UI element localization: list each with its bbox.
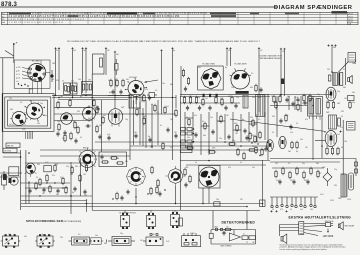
svg-text:1k2: 1k2 xyxy=(103,115,106,117)
svg-text:DETEKTORENHED: DETEKTORENHED xyxy=(222,220,256,224)
resistor R65 xyxy=(349,101,351,109)
connector J2 xyxy=(147,211,156,230)
svg-text:68k: 68k xyxy=(343,87,346,89)
svg-text:5k6: 5k6 xyxy=(126,79,129,81)
wire left rail xyxy=(2,58,4,153)
coil small xyxy=(243,95,248,108)
capacitor C13b xyxy=(148,95,151,100)
svg-text:g 45: g 45 xyxy=(16,71,20,73)
svg-text:2n2: 2n2 xyxy=(71,81,74,83)
svg-text:g 6.3: g 6.3 xyxy=(16,78,20,80)
terminal A13 xyxy=(283,48,285,50)
junction dot 21 xyxy=(28,152,30,154)
wire tube drop xyxy=(28,181,30,204)
svg-text:5k6: 5k6 xyxy=(116,54,119,56)
wire h 153 xyxy=(3,152,21,154)
tube V9 xyxy=(230,69,252,89)
wire v 345.6 xyxy=(345,58,347,85)
tube V3 xyxy=(25,163,37,177)
svg-text:47k: 47k xyxy=(52,175,55,177)
wire bus 203.5 xyxy=(21,203,262,205)
wire slant to transformer xyxy=(339,62,349,72)
svg-text:100: 100 xyxy=(170,119,173,121)
coil unit S3 xyxy=(69,237,93,245)
resistor R38 xyxy=(187,77,189,85)
resistor R43 xyxy=(215,96,217,104)
capacitor C14 xyxy=(98,134,101,139)
oscillator unit enclosure xyxy=(14,60,50,88)
svg-text:2M2: 2M2 xyxy=(326,112,329,114)
capacitor C29 xyxy=(194,132,197,137)
capacitor C8 xyxy=(42,187,45,192)
wire feed 8 xyxy=(172,49,174,160)
svg-text:50: 50 xyxy=(52,79,54,81)
IF amp box xyxy=(198,66,224,90)
IF transformer T1 xyxy=(256,95,266,117)
pin contact dots xyxy=(18,83,29,86)
svg-text:5k6: 5k6 xyxy=(198,67,201,69)
component row block 2 xyxy=(181,140,195,153)
svg-text:HØ 3939: HØ 3939 xyxy=(323,234,334,238)
svg-text:8p: 8p xyxy=(173,50,175,52)
svg-text:8p: 8p xyxy=(72,192,74,194)
filter choke xyxy=(329,115,341,129)
wire v257 xyxy=(256,114,258,142)
svg-text:LP: LP xyxy=(246,242,248,244)
junction dot 17 xyxy=(267,141,269,143)
tube V2b xyxy=(61,113,73,125)
junction dots audio xyxy=(28,182,71,196)
wire h 142 xyxy=(95,141,270,143)
junction dot 10 xyxy=(172,97,174,99)
resistor R52 xyxy=(208,151,216,153)
resistor R17 xyxy=(85,164,87,172)
svg-text:4M7: 4M7 xyxy=(57,102,60,104)
wire V1 leads xyxy=(22,60,50,94)
svg-text:0.02: 0.02 xyxy=(45,162,48,164)
junction dot 2 xyxy=(58,97,60,99)
junction dot 13 xyxy=(208,149,210,151)
IF can stubs xyxy=(310,116,321,120)
svg-text:4M7: 4M7 xyxy=(212,148,215,150)
svg-text:2M2: 2M2 xyxy=(185,167,188,169)
svg-text:2M2: 2M2 xyxy=(285,115,288,117)
resistor R37 xyxy=(182,69,184,77)
wire feed 7 xyxy=(114,53,116,109)
resistor R25 xyxy=(136,108,138,116)
svg-text:0.5: 0.5 xyxy=(78,234,80,236)
wire tuner top drop xyxy=(28,88,30,94)
junction dot 32 xyxy=(331,71,333,73)
resistor R48 xyxy=(220,115,222,123)
resistor R17d xyxy=(65,186,67,194)
svg-text:0.5: 0.5 xyxy=(260,50,262,52)
resistor R80 xyxy=(297,103,299,111)
svg-text:220: 220 xyxy=(232,73,235,75)
junction dot 14 xyxy=(224,141,226,143)
svg-text:0.8 45 215 1.2 6.3: 0.8 45 215 1.2 6.3 88 210 0.9 12.6 235 1… xyxy=(9,19,85,21)
svg-text:220: 220 xyxy=(145,89,148,91)
small box left of detector xyxy=(179,218,183,226)
voltage table frame xyxy=(2,12,359,24)
wire v176b xyxy=(175,95,177,108)
svg-text:2M2: 2M2 xyxy=(143,116,146,118)
left dark part 2 xyxy=(9,178,12,183)
wire tuner out 2 xyxy=(54,113,176,115)
wire h 95 xyxy=(108,95,130,97)
svg-text:1k2: 1k2 xyxy=(344,98,347,100)
svg-text:2M2: 2M2 xyxy=(52,63,55,65)
detector resistor xyxy=(224,228,232,230)
wire v 80.5 xyxy=(80,158,82,196)
svg-text:12p: 12p xyxy=(69,100,72,102)
svg-text:2n2: 2n2 xyxy=(70,174,73,176)
svg-text:25p: 25p xyxy=(150,147,153,149)
wire h 150 xyxy=(40,149,265,151)
svg-text:500: 500 xyxy=(37,123,40,125)
coil unit S4 xyxy=(91,238,103,244)
resistor R39 xyxy=(183,96,185,104)
resistor R9 xyxy=(69,99,71,107)
table header dark cell xyxy=(332,11,348,14)
resistor R67 xyxy=(331,147,333,155)
wire feed 3 xyxy=(72,49,74,98)
svg-text:V.k: V.k xyxy=(2,19,5,21)
resistor R6 xyxy=(57,101,59,109)
resistor box B2 xyxy=(71,83,78,94)
svg-text:330: 330 xyxy=(272,116,275,118)
svg-text:500: 500 xyxy=(213,96,216,98)
svg-text:68k: 68k xyxy=(104,243,107,245)
resistor R63 xyxy=(327,101,329,109)
svg-text:100: 100 xyxy=(83,174,86,176)
detector right vert xyxy=(255,230,257,245)
capacitor C35 xyxy=(296,97,299,102)
detector tiny labels xyxy=(214,226,255,244)
wire h 160.5 xyxy=(180,160,270,162)
resistor R45 xyxy=(231,96,233,104)
wire h 173 left xyxy=(0,172,22,174)
svg-text:BL 2M4: BL 2M4 xyxy=(32,61,40,63)
svg-text:330: 330 xyxy=(252,97,255,99)
svg-text:EKSTRA HØJT.: EKSTRA HØJT. xyxy=(270,57,283,60)
capacitor C36 xyxy=(279,118,282,123)
resistor R53 xyxy=(228,143,236,145)
junction dot 25 xyxy=(135,203,137,205)
terminal A15 xyxy=(331,44,333,46)
tube V8 xyxy=(201,69,221,90)
resistor R71d xyxy=(310,167,312,175)
capacitor C15 xyxy=(107,135,110,140)
wire v 277 xyxy=(276,96,278,137)
band column tick 19 xyxy=(319,12,321,24)
svg-text:12p: 12p xyxy=(317,94,320,96)
wire h 146 xyxy=(130,145,268,147)
terminal A4 xyxy=(81,47,83,49)
small part row 9 xyxy=(310,197,312,207)
resistor R28 xyxy=(164,106,166,114)
coil can B xyxy=(10,112,28,126)
junction dot 24 xyxy=(86,203,88,205)
wire v 268 xyxy=(267,94,269,160)
svg-text:100: 100 xyxy=(83,50,86,52)
wire v249 xyxy=(248,112,250,142)
wire h 165 xyxy=(186,164,266,166)
capacitor C32 xyxy=(243,128,246,133)
svg-text:25p: 25p xyxy=(276,180,279,182)
band label box 1 xyxy=(6,143,20,148)
capacitor C45 xyxy=(302,101,307,104)
svg-text:DE MED * MÆRKEDE SPÆNDINGER MÅ: DE MED * MÆRKEDE SPÆNDINGER MÅLES MED 20… xyxy=(184,40,260,43)
svg-text:2M2: 2M2 xyxy=(84,164,87,166)
connector J1 xyxy=(121,211,130,230)
tuner unit box outer xyxy=(2,94,54,132)
band column tick 4 xyxy=(69,12,71,24)
power amp box xyxy=(199,166,220,189)
junction dot 31 xyxy=(280,94,282,96)
svg-text:47k: 47k xyxy=(280,209,283,211)
wire j3 xyxy=(217,120,225,122)
svg-text:EKSTRA HØJTTALERTILSLUTNING: EKSTRA HØJTTALERTILSLUTNING xyxy=(289,215,352,219)
coil unit S1 xyxy=(1,234,21,248)
band column tick 10 xyxy=(169,12,171,24)
wire h 197 xyxy=(270,196,318,198)
svg-text:50: 50 xyxy=(151,104,153,106)
svg-text:hvis der ønskes regulering af: hvis der ønskes regulering af lydstyrken… xyxy=(280,248,328,251)
wire bus y97.5 xyxy=(52,97,176,99)
coil squiggle xyxy=(355,60,356,65)
svg-text:1k2: 1k2 xyxy=(279,95,282,97)
ekstra left speaker xyxy=(281,234,287,244)
wire v 71 xyxy=(70,162,72,214)
capacitor C12 xyxy=(111,89,114,94)
svg-text:68k: 68k xyxy=(316,163,319,165)
capacitor C28 xyxy=(234,103,237,108)
svg-text:500: 500 xyxy=(352,92,355,94)
box filter unit xyxy=(92,54,104,210)
small part row 10 xyxy=(314,197,316,208)
svg-text:4M7: 4M7 xyxy=(228,96,231,98)
svg-text:47k: 47k xyxy=(194,115,197,117)
resistor R16 xyxy=(79,174,81,182)
wire v 295 xyxy=(294,96,296,110)
tuner unit box inner xyxy=(8,100,48,126)
wire bus 210.5 xyxy=(92,210,260,212)
resistor R77 xyxy=(237,148,239,156)
wire j5 xyxy=(249,123,257,125)
wire h 188 xyxy=(25,187,68,189)
svg-text:500: 500 xyxy=(251,135,254,137)
capacitor C1 xyxy=(115,59,119,75)
junction dot 27 xyxy=(202,203,204,205)
junction dot 28 xyxy=(246,206,248,208)
svg-text:1k2: 1k2 xyxy=(140,240,143,242)
svg-text:68k: 68k xyxy=(10,109,13,111)
wire v 343.2 xyxy=(342,120,344,175)
junction dot 30 xyxy=(208,160,210,162)
ekstra arrow xyxy=(327,229,329,233)
capacitor C20 xyxy=(100,154,103,159)
wire feed 13 xyxy=(284,50,286,96)
svg-text:25p: 25p xyxy=(219,138,222,140)
svg-text:12p: 12p xyxy=(125,119,128,121)
wire tuner drop bundle xyxy=(26,131,33,139)
resistor R40 xyxy=(189,96,191,104)
svg-text:50: 50 xyxy=(186,117,188,119)
wire v185 xyxy=(184,112,186,142)
capacitor C43 xyxy=(74,138,77,143)
svg-text:4M7: 4M7 xyxy=(121,107,124,109)
resistor R29 xyxy=(175,109,177,117)
detector cap xyxy=(222,230,225,235)
terminal A2 xyxy=(58,47,60,49)
junction dot 15 xyxy=(240,145,242,147)
svg-text:2M2: 2M2 xyxy=(57,121,60,123)
detector out box 1 xyxy=(242,236,248,240)
capacitor C23 xyxy=(184,86,187,91)
svg-text:0.02: 0.02 xyxy=(295,97,298,99)
resistor R71c xyxy=(303,171,305,179)
svg-text:5k6: 5k6 xyxy=(341,147,344,149)
resistor R30 xyxy=(162,142,164,150)
svg-text:0.02: 0.02 xyxy=(22,129,25,131)
tube V3a xyxy=(10,177,18,185)
band heading dark bar xyxy=(107,13,137,15)
svg-text:5k6: 5k6 xyxy=(288,151,291,153)
svg-text:0.02: 0.02 xyxy=(166,241,169,243)
wire feed 5 xyxy=(85,49,87,93)
ekstra right speaker xyxy=(338,222,355,230)
svg-text:2M2: 2M2 xyxy=(258,97,261,99)
small part row 1 xyxy=(271,197,273,208)
svg-text:220: 220 xyxy=(84,195,87,197)
resistor R26 xyxy=(143,117,145,125)
svg-text:68k: 68k xyxy=(125,161,128,163)
svg-text:1k2: 1k2 xyxy=(290,180,293,182)
svg-text:68k: 68k xyxy=(170,84,173,86)
svg-text:8p: 8p xyxy=(242,119,244,121)
terminal A11 xyxy=(258,47,260,49)
detector top bus xyxy=(211,229,256,231)
terminal A10 xyxy=(229,47,231,49)
svg-text:10n: 10n xyxy=(40,103,43,105)
svg-text:s 0: s 0 xyxy=(16,81,18,83)
terminal A1 xyxy=(54,47,56,49)
svg-text:330: 330 xyxy=(77,111,80,113)
svg-text:0.5: 0.5 xyxy=(343,69,345,71)
band column tick 5 xyxy=(87,12,89,24)
svg-text:10n: 10n xyxy=(95,235,98,237)
svg-text:10n: 10n xyxy=(162,83,165,85)
wire h 168 right xyxy=(272,167,324,169)
coil unit S2 xyxy=(35,234,55,248)
component row block 1 xyxy=(181,128,195,136)
svg-text:0.02: 0.02 xyxy=(326,101,329,103)
terminal A12 xyxy=(280,48,282,50)
band column tick 2 xyxy=(37,12,39,24)
capacitor C40 xyxy=(306,179,309,184)
wire bus y95.4 xyxy=(52,94,130,96)
resistor R64 xyxy=(332,101,334,109)
band column tick 20 xyxy=(335,12,337,24)
svg-text:10n: 10n xyxy=(282,51,285,53)
wire v 301 xyxy=(300,96,302,112)
svg-text:12p: 12p xyxy=(150,228,153,230)
junction dot 8 xyxy=(142,113,144,115)
band column tick 16 xyxy=(269,12,271,24)
tube V12 xyxy=(279,136,286,148)
electrolytic cap xyxy=(281,79,284,85)
svg-text:0.5: 0.5 xyxy=(251,73,253,75)
left dark part 1 xyxy=(3,174,7,180)
tube V11 xyxy=(267,140,274,152)
junction dot 18 xyxy=(276,105,278,107)
capacitor C33 xyxy=(285,97,288,102)
wire j2 xyxy=(201,125,209,127)
AF tube octagon xyxy=(127,167,146,186)
resistor R61 xyxy=(296,141,298,149)
wire v241 xyxy=(240,114,242,142)
capacitor C38 xyxy=(278,179,281,184)
wire v209 xyxy=(208,112,210,155)
svg-text:0.1: 0.1 xyxy=(290,209,292,211)
tube V14 xyxy=(325,131,337,147)
junction dot 9 xyxy=(151,145,153,147)
wire h 156 xyxy=(40,155,130,157)
svg-text:68k: 68k xyxy=(203,135,206,137)
capacitor C34 xyxy=(291,101,294,106)
svg-text:0.5: 0.5 xyxy=(104,162,106,164)
small part row 2 xyxy=(276,197,278,208)
resistor R66 xyxy=(326,147,328,155)
wire j1 xyxy=(185,117,193,119)
resistor box B1 xyxy=(64,83,71,95)
wire v 322 xyxy=(321,116,323,158)
capacitor C44 xyxy=(245,135,248,140)
svg-text:330: 330 xyxy=(334,185,337,187)
svg-text:4M7: 4M7 xyxy=(337,103,340,105)
terminal A9 xyxy=(226,47,228,49)
resistor R71 xyxy=(289,171,291,179)
resistor R18 xyxy=(110,79,112,87)
wire feed 10 xyxy=(230,49,232,66)
svg-text:0.5: 0.5 xyxy=(155,90,157,92)
tube V2c xyxy=(83,105,96,122)
junction dot 12 xyxy=(192,141,194,143)
wire v152 xyxy=(151,104,153,148)
svg-text:4M7: 4M7 xyxy=(55,164,58,166)
resistor R79 xyxy=(275,101,277,109)
resistor R57 xyxy=(303,94,305,102)
junction dot 6 xyxy=(114,95,116,97)
svg-text:SPOLEFORBINDELSER: SPOLEFORBINDELSER xyxy=(26,219,64,223)
wire v 20.6 xyxy=(20,150,22,210)
svg-text:220: 220 xyxy=(327,69,330,71)
wire feed 11 xyxy=(258,49,260,112)
terminal A17 xyxy=(340,130,342,132)
wire v133.5 xyxy=(133,100,135,145)
band chunk 5 xyxy=(285,13,299,14)
resistor R14 xyxy=(62,177,64,185)
wire v 86.5 xyxy=(86,199,88,212)
wire v 262.5 xyxy=(262,160,264,207)
resistor R54 xyxy=(248,149,256,151)
resistor R19 xyxy=(116,79,118,87)
IF transformer T2 xyxy=(308,97,323,117)
resistor R68 xyxy=(337,147,339,155)
svg-text:a 215: a 215 xyxy=(16,67,21,69)
svg-text:10n: 10n xyxy=(352,63,355,65)
